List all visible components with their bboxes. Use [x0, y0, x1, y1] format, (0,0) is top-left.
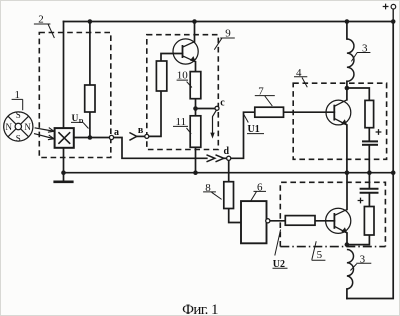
svg-text:c: c — [220, 98, 225, 109]
svg-text:S: S — [16, 134, 21, 144]
svg-text:a: a — [114, 127, 119, 138]
svg-text:в: в — [138, 125, 144, 136]
svg-text:D: D — [79, 118, 84, 125]
svg-text:N: N — [24, 122, 31, 132]
svg-text:Фиг. 1: Фиг. 1 — [182, 302, 218, 315]
svg-text:d: d — [224, 146, 230, 157]
svg-text:N: N — [6, 122, 13, 132]
svg-text:5: 5 — [317, 249, 323, 261]
svg-text:S: S — [16, 110, 21, 120]
